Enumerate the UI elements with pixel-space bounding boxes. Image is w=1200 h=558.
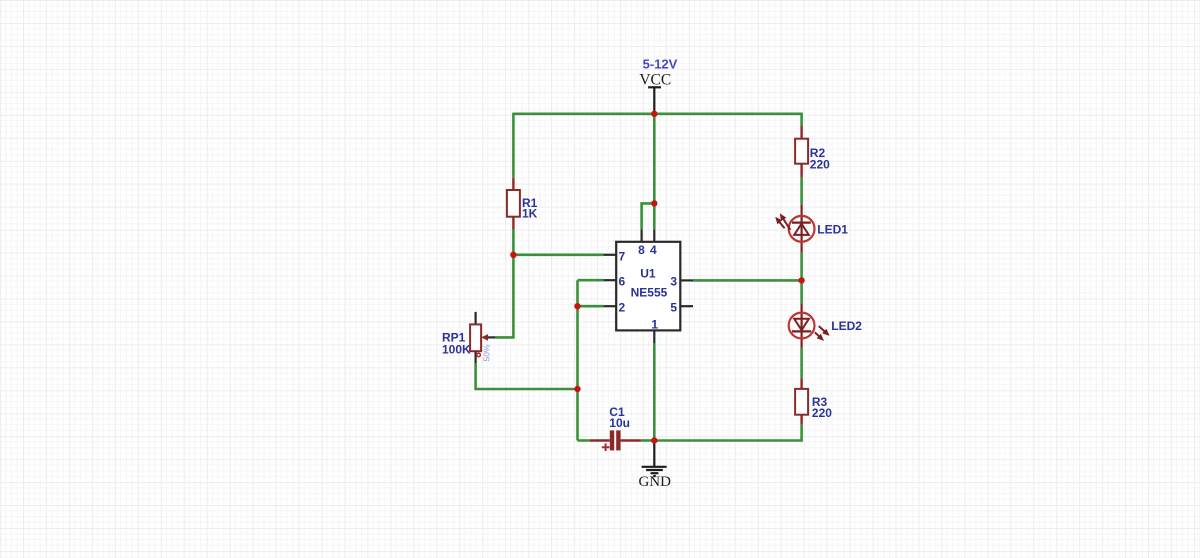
- LED2 light arrow a: [819, 326, 825, 331]
- svg-text:7: 7: [619, 249, 626, 263]
- junction R1 bottom: [510, 252, 516, 258]
- capacitor C1 right lead: [621, 439, 641, 441]
- wire pin 3 horizontal: [693, 279, 802, 282]
- svg-text:4: 4: [650, 243, 657, 257]
- svg-text:220: 220: [812, 406, 832, 420]
- junction pin8 riser: [651, 200, 657, 206]
- svg-text:1: 1: [651, 317, 658, 331]
- ground symbol bar 1: [642, 466, 667, 468]
- potentiometer RP1 wiper arrow: [488, 336, 495, 338]
- power flag VCC stem: [653, 87, 655, 112]
- svg-text:1K: 1K: [522, 207, 538, 221]
- svg-text:NE555: NE555: [631, 285, 668, 299]
- resistor R2 top lead: [800, 126, 802, 139]
- junction pin3 node: [798, 277, 804, 283]
- potentiometer RP1 body: [470, 324, 481, 351]
- power flag VCC symbol bar: [648, 86, 661, 88]
- IC U1 NE555 body: [616, 242, 680, 331]
- U1 pin 5 stub: [680, 305, 693, 307]
- junction RP1 bottom node: [574, 386, 580, 392]
- capacitor C1 right plate: [616, 430, 620, 450]
- svg-text:U1: U1: [640, 267, 656, 281]
- wire pin 1 down to GND node: [653, 343, 656, 441]
- junction VCC rail: [651, 111, 657, 117]
- capacitor C1 left plate: [610, 430, 614, 450]
- svg-text:VCC: VCC: [639, 72, 671, 89]
- U1 pin 3 stub: [680, 279, 693, 281]
- U1 pin 7 stub: [603, 254, 616, 256]
- ground symbol stem: [653, 441, 655, 467]
- LED1 through lead: [800, 205, 802, 253]
- wire bottom rail horizontal: [654, 425, 801, 441]
- resistor R3 bottom lead: [800, 415, 802, 425]
- U1 pin 1 stub: [653, 330, 655, 343]
- svg-text:10u: 10u: [609, 416, 630, 430]
- LED2 cathode bar: [792, 330, 811, 332]
- svg-text:100K: 100K: [442, 342, 471, 356]
- LED1 light arrow b: [779, 222, 784, 228]
- potentiometer RP1 top stub: [475, 312, 477, 325]
- wire RP1 bottom to mid rail: [476, 363, 578, 389]
- ground symbol bar 3: [651, 472, 659, 474]
- wire R2 to LED1: [800, 177, 803, 204]
- svg-text:5-12V: 5-12V: [643, 57, 678, 72]
- LED1 triangle: [794, 224, 809, 235]
- svg-text:50%: 50%: [482, 344, 492, 361]
- LED1 circle: [789, 216, 815, 242]
- wire wiper horizontal: [495, 336, 515, 339]
- LED2 through lead: [800, 303, 802, 348]
- svg-text:6: 6: [619, 275, 626, 289]
- svg-text:3: 3: [670, 275, 677, 289]
- potentiometer RP1 marker dot: [477, 353, 481, 357]
- wire pin 6 horizontal: [578, 279, 604, 282]
- svg-text:GND: GND: [638, 474, 671, 490]
- resistor R1 body: [507, 190, 520, 217]
- resistor R3 body: [795, 389, 808, 415]
- capacitor C1 plus sign: [602, 443, 610, 451]
- potentiometer RP1 bottom stub: [475, 351, 477, 363]
- resistor R1 top lead: [512, 178, 514, 190]
- wire left rail down to R1: [512, 113, 515, 178]
- wire mid rail vertical: [576, 280, 579, 440]
- svg-text:LED1: LED1: [817, 222, 848, 236]
- wire mid rail to C1 left: [578, 439, 590, 442]
- svg-text:2: 2: [619, 301, 626, 315]
- ground symbol bar 2: [646, 469, 663, 471]
- wire C1 right to GND node: [641, 439, 654, 442]
- resistor R1 bottom lead: [512, 217, 514, 229]
- U1 pin 8 stub: [640, 229, 642, 242]
- wire VCC top rail horizontal: [513, 114, 801, 126]
- junction GND node: [651, 437, 657, 443]
- wire R1 bottom to RP1 wiper node: [512, 229, 515, 337]
- LED2 triangle: [794, 319, 809, 330]
- LED1 cathode bar: [792, 222, 811, 224]
- LED2 light arrow b: [815, 332, 819, 336]
- resistor R2 bottom lead: [800, 164, 802, 178]
- LED2 circle: [789, 313, 815, 339]
- wire LED1 to LED2 through pin3 node: [800, 253, 803, 304]
- resistor R3 top lead: [800, 378, 802, 389]
- wire LED2 to R3: [800, 348, 803, 379]
- wire pin 2 horizontal: [578, 305, 604, 308]
- wire node to pin 7: [513, 254, 603, 257]
- wire pin 8 riser: [642, 203, 655, 229]
- resistor R2 body: [795, 139, 808, 164]
- junction pin2 node: [574, 303, 580, 309]
- svg-text:5: 5: [670, 301, 677, 315]
- capacitor C1 left lead: [590, 439, 610, 441]
- U1 pin 6 stub: [603, 279, 616, 281]
- LED1 light arrow a: [783, 219, 790, 230]
- svg-text:LED2: LED2: [831, 319, 862, 333]
- wire VCC down to pin 4: [653, 114, 656, 230]
- U1 pin 2 stub: [603, 305, 616, 307]
- ground symbol bar 4: [653, 475, 656, 477]
- svg-text:8: 8: [638, 243, 645, 257]
- svg-text:220: 220: [810, 158, 830, 172]
- U1 pin 4 stub: [653, 229, 655, 242]
